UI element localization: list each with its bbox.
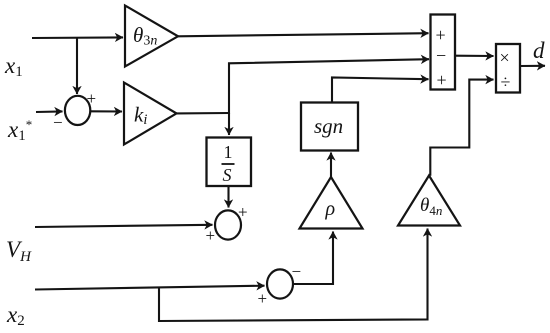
svg-text:−: −	[292, 262, 302, 281]
svg-text:VH: VH	[6, 237, 32, 265]
fraction bar	[222, 163, 235, 165]
amplifier theta3n	[125, 6, 178, 67]
svg-text:+: +	[238, 203, 248, 222]
wire sgn up and right to summing box plus3	[332, 78, 429, 103]
wire x1star input to S1	[36, 110, 63, 113]
wire ki output to junction	[177, 112, 230, 115]
wire output d	[520, 65, 545, 67]
wire S3 to rho	[293, 232, 333, 285]
svg-text:ki: ki	[134, 103, 147, 129]
svg-text:+: +	[437, 70, 447, 90]
svg-text:S: S	[223, 165, 232, 185]
summing box	[431, 15, 456, 90]
wire branch down along bottom and up to theta4n	[159, 229, 428, 322]
wire branch down to sum circle S1	[76, 38, 78, 94]
wire junction down to integrator	[228, 113, 230, 135]
amplifier theta4n	[398, 176, 460, 226]
svg-text:θ3n: θ3n	[133, 23, 157, 49]
wire rho to sgn	[330, 153, 332, 178]
svg-text:x2: x2	[6, 302, 25, 329]
svg-text:−: −	[436, 46, 446, 66]
wire x2 input to sum circle S3	[35, 286, 265, 290]
svg-text:+: +	[87, 89, 97, 108]
wire theta3n output to summing box plus1	[178, 33, 429, 36]
wire theta4n up over to divider input	[430, 80, 493, 176]
wire x1 input to theta3n	[32, 36, 123, 39]
svg-text:+: +	[258, 289, 268, 308]
svg-text:θ4n: θ4n	[420, 195, 442, 218]
amplifier ki	[124, 83, 177, 145]
svg-text:−: −	[53, 113, 63, 132]
sum circle S1	[65, 96, 90, 125]
svg-text:x1: x1	[4, 53, 23, 80]
svg-text:1: 1	[224, 142, 233, 162]
sum circle S2	[215, 210, 241, 239]
block sgn	[301, 103, 358, 151]
svg-text:x1*: x1*	[7, 117, 32, 144]
wire VH input to S2	[35, 225, 213, 227]
svg-text:d: d	[533, 38, 545, 63]
wire S1 to ki	[91, 110, 123, 112]
svg-text:+: +	[206, 226, 216, 245]
wire summing box to multiply divide box	[455, 55, 494, 57]
svg-text:sgn: sgn	[314, 114, 343, 138]
wire junction up and right to summing box minus	[229, 59, 429, 114]
svg-text:ρ: ρ	[325, 198, 336, 220]
svg-text:+: +	[436, 25, 446, 45]
amplifier rho	[300, 177, 363, 229]
sum circle S3	[267, 269, 293, 298]
svg-text:÷: ÷	[501, 72, 511, 92]
wire integrator to sum circle S2	[227, 186, 229, 208]
multiply divide box	[496, 44, 520, 93]
integrator block 1/S	[207, 138, 252, 187]
svg-text:×: ×	[500, 48, 510, 68]
